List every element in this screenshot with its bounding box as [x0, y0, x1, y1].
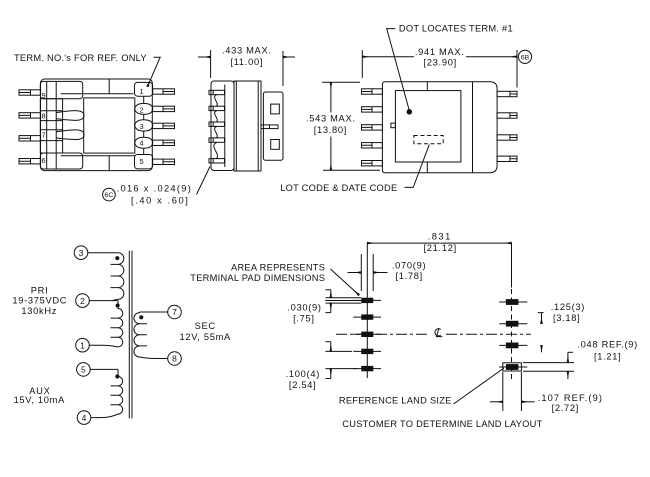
svg-text:19-375VDC: 19-375VDC [12, 295, 67, 305]
dim .048 arrows [567, 352, 569, 362]
lead 2 (left) [362, 107, 383, 112]
pad R2 [506, 321, 519, 327]
pin 3 [74, 246, 88, 260]
svg-text:[13.80]: [13.80] [314, 125, 347, 135]
svg-text:6B: 6B [521, 54, 530, 61]
svg-text:.125(3): .125(3) [551, 302, 585, 312]
dim .941 line left [362, 56, 414, 58]
dim .543 line top [330, 82, 332, 112]
dim .941 line right [466, 56, 517, 58]
pin 1 [76, 338, 90, 352]
lead 9 (right) [497, 91, 517, 96]
lead 6 (right) [497, 156, 517, 161]
polarity dot aux [115, 374, 119, 378]
pad R1 [506, 299, 519, 305]
pad L1 [361, 298, 373, 303]
svg-text:.070(9): .070(9) [392, 261, 426, 271]
bobbin left section [211, 81, 234, 171]
lead 7 (right) [497, 135, 517, 140]
right column seam [143, 96, 145, 154]
terminal pad lower [271, 140, 280, 150]
flange curve 3 [215, 126, 218, 137]
center tab [261, 125, 278, 129]
leader to lot code [405, 144, 430, 187]
bobbin spine [224, 85, 226, 168]
svg-text:TERMINAL PAD DIMENSIONS: TERMINAL PAD DIMENSIONS [190, 273, 325, 283]
pad R4 (reference land) [506, 364, 519, 370]
notch [391, 123, 396, 128]
top band line [61, 93, 134, 95]
core window [84, 98, 135, 153]
svg-text:1: 1 [140, 87, 144, 96]
svg-text:[23.90]: [23.90] [424, 58, 457, 68]
svg-text:DOT LOCATES TERM. #1: DOT LOCATES TERM. #1 [399, 23, 513, 33]
dim .433 arrows [198, 56, 211, 58]
svg-text:[1.21]: [1.21] [594, 352, 621, 362]
svg-text:.831: .831 [428, 232, 452, 242]
svg-text:12V, 55mA: 12V, 55mA [179, 332, 231, 342]
wire pin5 to aux [90, 368, 118, 370]
svg-text:130kHz: 130kHz [21, 306, 57, 316]
svg-text:.433 MAX.: .433 MAX. [222, 46, 272, 56]
svg-text:5: 5 [81, 365, 86, 375]
svg-text:2: 2 [140, 106, 144, 115]
svg-text:3: 3 [140, 122, 144, 131]
lead term 2 [153, 106, 175, 111]
side lead 3 [209, 122, 225, 126]
bottom seam [426, 162, 428, 173]
body outline [41, 79, 153, 171]
pin 5 [77, 363, 91, 377]
dim .070 ext lines [361, 254, 373, 291]
pad L2 [361, 314, 373, 319]
svg-text:.107 REF.(9): .107 REF.(9) [538, 393, 603, 403]
pin 2 [76, 294, 90, 308]
note 6C circle [103, 188, 116, 201]
pin 4 [77, 411, 91, 425]
wire pin4 [91, 414, 119, 418]
lead term 8 [19, 113, 41, 118]
dim .831 line [367, 242, 439, 244]
wire pin3 to primary [88, 252, 119, 254]
leader to terminal 1 [148, 57, 161, 86]
lead 8 (right) [497, 113, 517, 118]
svg-text:PRI: PRI [31, 286, 49, 296]
svg-text:6: 6 [42, 156, 46, 165]
terminal 2 pad [135, 103, 153, 114]
svg-text:CUSTOMER TO DETERMINE LAND LAY: CUSTOMER TO DETERMINE LAND LAYOUT [342, 419, 542, 429]
dim .070 arrows [348, 272, 362, 274]
aux winding (5-4) [118, 369, 123, 414]
leader horizontal [325, 300, 361, 302]
dim .941 ext left [361, 50, 363, 78]
primary winding upper (3-2) [112, 253, 124, 301]
core lines [129, 251, 132, 419]
dim .543 ext bottom [323, 169, 380, 171]
dim .030 ext lines [326, 298, 362, 303]
dim .048 ext lines [523, 363, 574, 372]
pin 8 [168, 352, 182, 366]
side lead 1 [209, 90, 225, 94]
lead 1 (left) [362, 89, 383, 94]
top seam [426, 82, 428, 91]
lot code area (dashed) [414, 136, 443, 144]
svg-text:7: 7 [172, 307, 177, 317]
primary winding lower (2-1) [118, 301, 123, 347]
pad R3 [506, 343, 519, 349]
flange line [472, 82, 474, 173]
svg-text:9: 9 [42, 91, 46, 100]
flange curve 4 [214, 142, 218, 158]
core window [395, 91, 461, 162]
dim .941 ext right [516, 50, 518, 88]
secondary winding (7-8) [134, 312, 168, 359]
svg-text:TERM. NO.'s FOR REF. ONLY: TERM. NO.'s FOR REF. ONLY [14, 53, 147, 63]
svg-text:[1.78]: [1.78] [396, 271, 423, 281]
top seam [108, 79, 110, 94]
pad L4 [361, 349, 373, 354]
leader 6C to lead [197, 167, 211, 195]
svg-text:[.40 x .60]: [.40 x .60] [131, 195, 189, 205]
left column blocks [40, 99, 62, 153]
dot terminal 1 [407, 109, 413, 115]
body center section [234, 81, 261, 171]
svg-text:.016 x .024(9): .016 x .024(9) [117, 184, 193, 194]
leader to reference land [454, 368, 505, 404]
svg-text:[2.72]: [2.72] [552, 403, 579, 413]
dim .100 arrows [330, 342, 332, 352]
dim .433 MAX extension lines [211, 50, 283, 86]
lead 5 (left) [362, 161, 383, 166]
pad L5 [361, 366, 373, 371]
polarity dot secondary [139, 315, 143, 319]
wire pin7 to secondary [140, 311, 169, 313]
left centerline [366, 243, 368, 378]
polarity dot primary upper [115, 256, 119, 260]
dim .100 ext lines [326, 351, 358, 368]
right pad ticks [499, 302, 527, 367]
terminal 9 block [40, 81, 82, 98]
svg-text:.543 MAX.: .543 MAX. [306, 114, 356, 124]
lead term 9 [19, 90, 41, 95]
polarity dot primary lower [116, 303, 120, 307]
svg-text:.941 MAX.: .941 MAX. [415, 47, 465, 57]
svg-text:.048 REF.(9): .048 REF.(9) [577, 340, 638, 350]
svg-text:15V, 10mA: 15V, 10mA [14, 395, 66, 405]
svg-text:2: 2 [80, 296, 85, 306]
bottom band line [61, 155, 135, 157]
body outline [382, 82, 497, 173]
lead 3 (left) [362, 125, 383, 130]
terminal 3 pad [135, 120, 153, 131]
flange curve 1 [215, 95, 218, 107]
leader to dot [387, 29, 410, 111]
winding lead-out taper (term 8) [56, 111, 84, 121]
winding lead-out taper (term 7) [56, 130, 84, 140]
left column seams [47, 81, 57, 169]
lead term 4 [153, 140, 175, 145]
svg-text:[.75]: [.75] [293, 314, 315, 324]
side lead 5 [209, 159, 225, 163]
svg-text:[11.00]: [11.00] [230, 57, 263, 67]
bottom seam [108, 156, 110, 171]
terminal pad upper [271, 104, 280, 114]
dim .107 arrows [490, 401, 503, 403]
svg-text:REFERENCE LAND SIZE: REFERENCE LAND SIZE [339, 396, 452, 406]
svg-text:.100(4): .100(4) [286, 369, 320, 379]
svg-text:LOT CODE & DATE CODE: LOT CODE & DATE CODE [280, 183, 397, 193]
terminal 4 pad [135, 137, 153, 148]
svg-text:AREA REPRESENTS: AREA REPRESENTS [231, 263, 325, 273]
dim .543 line bottom [330, 137, 332, 171]
flange curve 2 [215, 111, 218, 122]
wire pin2 tap [89, 300, 118, 302]
svg-text:8: 8 [42, 111, 46, 120]
terminal block right [263, 92, 283, 160]
svg-text:3: 3 [79, 248, 84, 258]
leader diagonal to pad L1 [330, 269, 359, 295]
terminal 6 block [40, 153, 82, 169]
lead term 7 [19, 136, 41, 141]
svg-text:4: 4 [82, 413, 87, 423]
reference land outline [503, 363, 522, 371]
svg-text:4: 4 [140, 139, 144, 148]
pin 7 [168, 305, 182, 319]
side lead 2 [209, 106, 225, 110]
svg-text:SEC: SEC [195, 321, 216, 331]
dim .125 marks [538, 313, 544, 324]
left pad ticks [353, 300, 381, 368]
terminal 5 pad [135, 155, 153, 169]
svg-text:[2.54]: [2.54] [289, 380, 316, 390]
note 6B circle [518, 50, 531, 63]
svg-text:.030(9): .030(9) [287, 303, 321, 313]
lead 4 (left) [362, 143, 383, 148]
svg-text:5: 5 [140, 157, 144, 166]
wire pin1 [89, 345, 118, 347]
lead term 1 [153, 89, 175, 94]
pad L3 [361, 332, 373, 337]
svg-text:7: 7 [42, 130, 46, 139]
svg-text:6C: 6C [105, 192, 114, 199]
svg-text:[3.18]: [3.18] [553, 313, 580, 323]
right centerline (dashed) [511, 243, 513, 287]
dim .107 ext lines [503, 372, 522, 411]
dim .543 ext top [322, 81, 360, 83]
dim .030 arrows [330, 290, 332, 298]
svg-text:1: 1 [80, 340, 85, 350]
side lead 4 [209, 138, 225, 142]
svg-text:8: 8 [172, 354, 177, 364]
horizontal centerline dash-dot [336, 333, 429, 335]
terminal 1 pad [135, 82, 153, 96]
lead term 6 [19, 159, 41, 164]
centerline symbol [435, 328, 442, 337]
lead term 5 [153, 159, 175, 164]
svg-text:[21.12]: [21.12] [424, 243, 457, 253]
lead term 3 [153, 123, 175, 128]
